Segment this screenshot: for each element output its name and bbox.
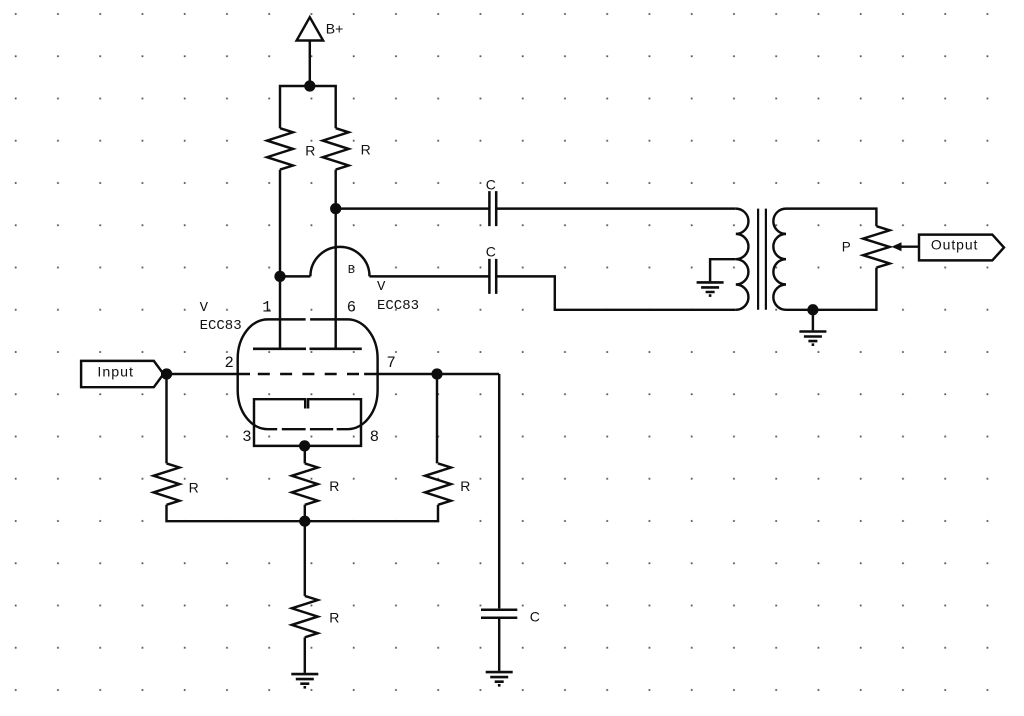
cathode heater box: [254, 399, 361, 446]
gap bottom center of envelope: [306, 426, 310, 432]
capacitor C2: [489, 259, 496, 294]
wire pin7 node down: [436, 374, 438, 463]
wire bus to tail resistor: [304, 521, 306, 596]
wire pin1 to plate: [279, 276, 281, 348]
wire tail resistor to ground: [304, 637, 306, 673]
wire input to tube grid (solid part): [167, 373, 250, 375]
capacitor C1: [489, 191, 496, 226]
capacitor C3: [481, 610, 517, 618]
ground tail: [291, 674, 318, 687]
wire C1 to transformer primary: [496, 207, 736, 209]
junction plate node: [331, 204, 340, 213]
resistor R1: [267, 128, 293, 169]
wire plate node to C1: [336, 207, 490, 209]
svg-text:2: 2: [225, 354, 234, 372]
ground primary tap: [697, 282, 724, 295]
wire secondary top to pot: [786, 209, 876, 227]
wire pin7 node to C3: [498, 374, 500, 608]
ground C3: [486, 672, 513, 685]
wire C2 to primary bottom: [496, 276, 736, 309]
wire primary center tap: [710, 259, 736, 281]
port Input flag: [81, 361, 163, 387]
transformer primary winding: [736, 209, 749, 310]
ground secondary: [799, 332, 826, 345]
wire bottom bus: [167, 505, 439, 521]
tube envelope V ECC83: [238, 319, 378, 429]
wire R1 to node B: [279, 170, 281, 277]
wire input node down: [165, 374, 167, 463]
svg-text:C: C: [530, 609, 540, 625]
svg-text:1: 1: [262, 299, 271, 317]
svg-text:Output: Output: [931, 236, 978, 252]
resistor R tail: [292, 596, 318, 637]
resistor R grid-left: [154, 463, 180, 504]
svg-text:7: 7: [387, 354, 396, 372]
svg-text:C: C: [486, 176, 496, 192]
svg-text:3: 3: [242, 428, 251, 446]
resistor R cathode: [292, 463, 318, 504]
junction B+ node: [305, 82, 314, 91]
wire R2 to plate node: [334, 170, 336, 209]
svg-text:V: V: [200, 300, 209, 316]
wire hop to C2: [370, 275, 490, 277]
junction bottom bus: [300, 517, 309, 526]
resistor R2: [323, 128, 349, 169]
wire pot bottom: [786, 268, 876, 310]
junction secondary ground node: [809, 305, 818, 314]
gap bottom right of envelope: [333, 426, 337, 432]
wire node B to hop: [280, 275, 310, 277]
potentiometer P: [863, 226, 890, 267]
power port B+: [297, 17, 324, 40]
junction pin7 node: [433, 370, 442, 379]
port Output flag: [919, 235, 1004, 261]
wire pin6 to plate: [334, 209, 336, 349]
wire grid dashed: [258, 373, 360, 375]
transformer secondary winding: [773, 209, 786, 310]
svg-text:C: C: [486, 244, 496, 260]
wire top bus: [280, 86, 336, 128]
junction input node: [162, 370, 171, 379]
wire grid right solid: [364, 373, 499, 375]
svg-text:R: R: [460, 478, 470, 494]
plate bar right triode: [310, 347, 362, 350]
gap bottom left of envelope: [277, 426, 282, 432]
svg-text:R: R: [329, 478, 339, 494]
wire C3 to ground: [498, 619, 500, 671]
gap top of envelope: [306, 317, 311, 323]
svg-text:B+: B+: [326, 21, 344, 37]
svg-text:B: B: [348, 263, 355, 277]
svg-text:V: V: [377, 279, 386, 295]
wire hop over pin6: [310, 247, 369, 277]
transformer core: [758, 209, 766, 310]
svg-text:ECC83: ECC83: [200, 318, 242, 334]
svg-text:Input: Input: [97, 365, 134, 381]
svg-text:R: R: [305, 143, 315, 159]
resistor R grid-right: [425, 463, 451, 504]
svg-text:P: P: [842, 240, 851, 255]
plate bar left triode: [253, 347, 306, 350]
wire B+ to bus: [309, 41, 311, 87]
wire cathode to R3: [304, 446, 306, 464]
svg-text:ECC83: ECC83: [377, 298, 419, 314]
svg-text:8: 8: [370, 428, 379, 446]
svg-text:R: R: [361, 142, 371, 158]
junction cathode node: [300, 442, 309, 451]
wiper arrowhead: [892, 242, 902, 251]
wire secondary to ground: [812, 310, 814, 331]
svg-text:6: 6: [347, 299, 356, 317]
svg-text:R: R: [189, 480, 199, 496]
wiper arrow wire: [899, 245, 919, 247]
junction node B: [276, 272, 285, 281]
svg-text:R: R: [329, 610, 339, 626]
